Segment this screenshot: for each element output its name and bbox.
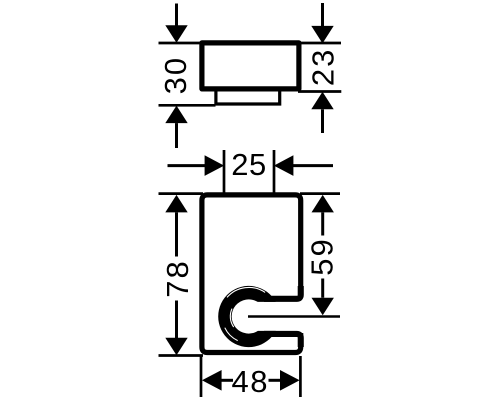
svg-text:25: 25 [231, 147, 266, 182]
svg-text:23: 23 [305, 48, 340, 86]
svg-text:59: 59 [305, 237, 340, 275]
svg-text:78: 78 [160, 259, 195, 297]
svg-text:48: 48 [232, 364, 269, 399]
svg-text:30: 30 [158, 56, 193, 94]
